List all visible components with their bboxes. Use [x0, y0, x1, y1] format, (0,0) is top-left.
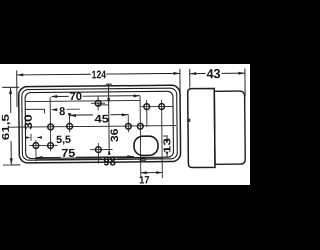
side view clip nub [187, 119, 190, 122]
hole A vertical [35, 140, 37, 161]
dimension 61,5 [0, 87, 20, 165]
svg-text:75: 75 [61, 148, 76, 160]
svg-text:13: 13 [162, 137, 173, 153]
holes H,I horizontal [141, 105, 174, 107]
dimension 5,5 [25, 133, 71, 146]
svg-text:61,5: 61,5 [1, 114, 12, 141]
hole B [48, 143, 54, 149]
svg-text:124: 124 [92, 69, 107, 81]
hole A [33, 143, 39, 149]
hole C [48, 124, 54, 130]
wire cross lines [29, 96, 174, 180]
bottom row hole line [29, 144, 58, 146]
dimension 70 [51, 90, 141, 103]
side view lens block [188, 88, 215, 167]
vertical through C and B [49, 97, 52, 151]
hole G [125, 123, 131, 129]
svg-text:45: 45 [94, 113, 109, 125]
bottom black band [0, 185, 250, 250]
dimension 30 [23, 109, 45, 130]
dimension 13 [162, 136, 173, 157]
lamp outer outline [19, 85, 181, 163]
hole F [67, 123, 73, 129]
hole E vertical extension [139, 96, 142, 178]
dimension 124 [17, 68, 181, 107]
svg-text:70: 70 [69, 91, 82, 103]
hole H vertical [146, 100, 148, 127]
notch below oval [140, 158, 145, 160]
dimension 8 [51, 106, 80, 119]
hole T1 horizontal [91, 102, 105, 104]
dimension 17 [139, 171, 162, 186]
hole F vertical [68, 113, 70, 132]
svg-text:17: 17 [139, 174, 150, 186]
top black band [0, 0, 250, 64]
svg-text:98: 98 [103, 154, 116, 168]
hole H [144, 104, 150, 110]
hole E [137, 123, 143, 129]
hole G vertical [127, 114, 129, 132]
lamp second outline [22, 88, 178, 160]
dimension 43 [190, 66, 245, 97]
dimension 98 [36, 154, 162, 169]
svg-text:30: 30 [23, 114, 35, 130]
svg-text:5,5: 5,5 [56, 134, 71, 146]
svg-text:43: 43 [206, 66, 220, 81]
hole T1 vertical [97, 96, 99, 110]
dimension 45 [69, 113, 128, 126]
license window oval [134, 136, 158, 155]
hole D [95, 147, 101, 153]
svg-text:8: 8 [59, 106, 66, 118]
lens opening rect [25, 91, 173, 158]
hole T1 [95, 100, 101, 106]
inner lens division line [25, 100, 140, 101]
svg-text:36: 36 [109, 128, 121, 142]
hole D horizontal [90, 149, 112, 151]
horizontal centerline [9, 126, 176, 128]
hole D vertical [97, 143, 99, 163]
dimension 75 [36, 147, 134, 160]
hole I vertical extension [161, 100, 164, 178]
dimension 36 [98, 83, 121, 155]
side view housing [214, 91, 245, 164]
hole I [159, 104, 165, 110]
